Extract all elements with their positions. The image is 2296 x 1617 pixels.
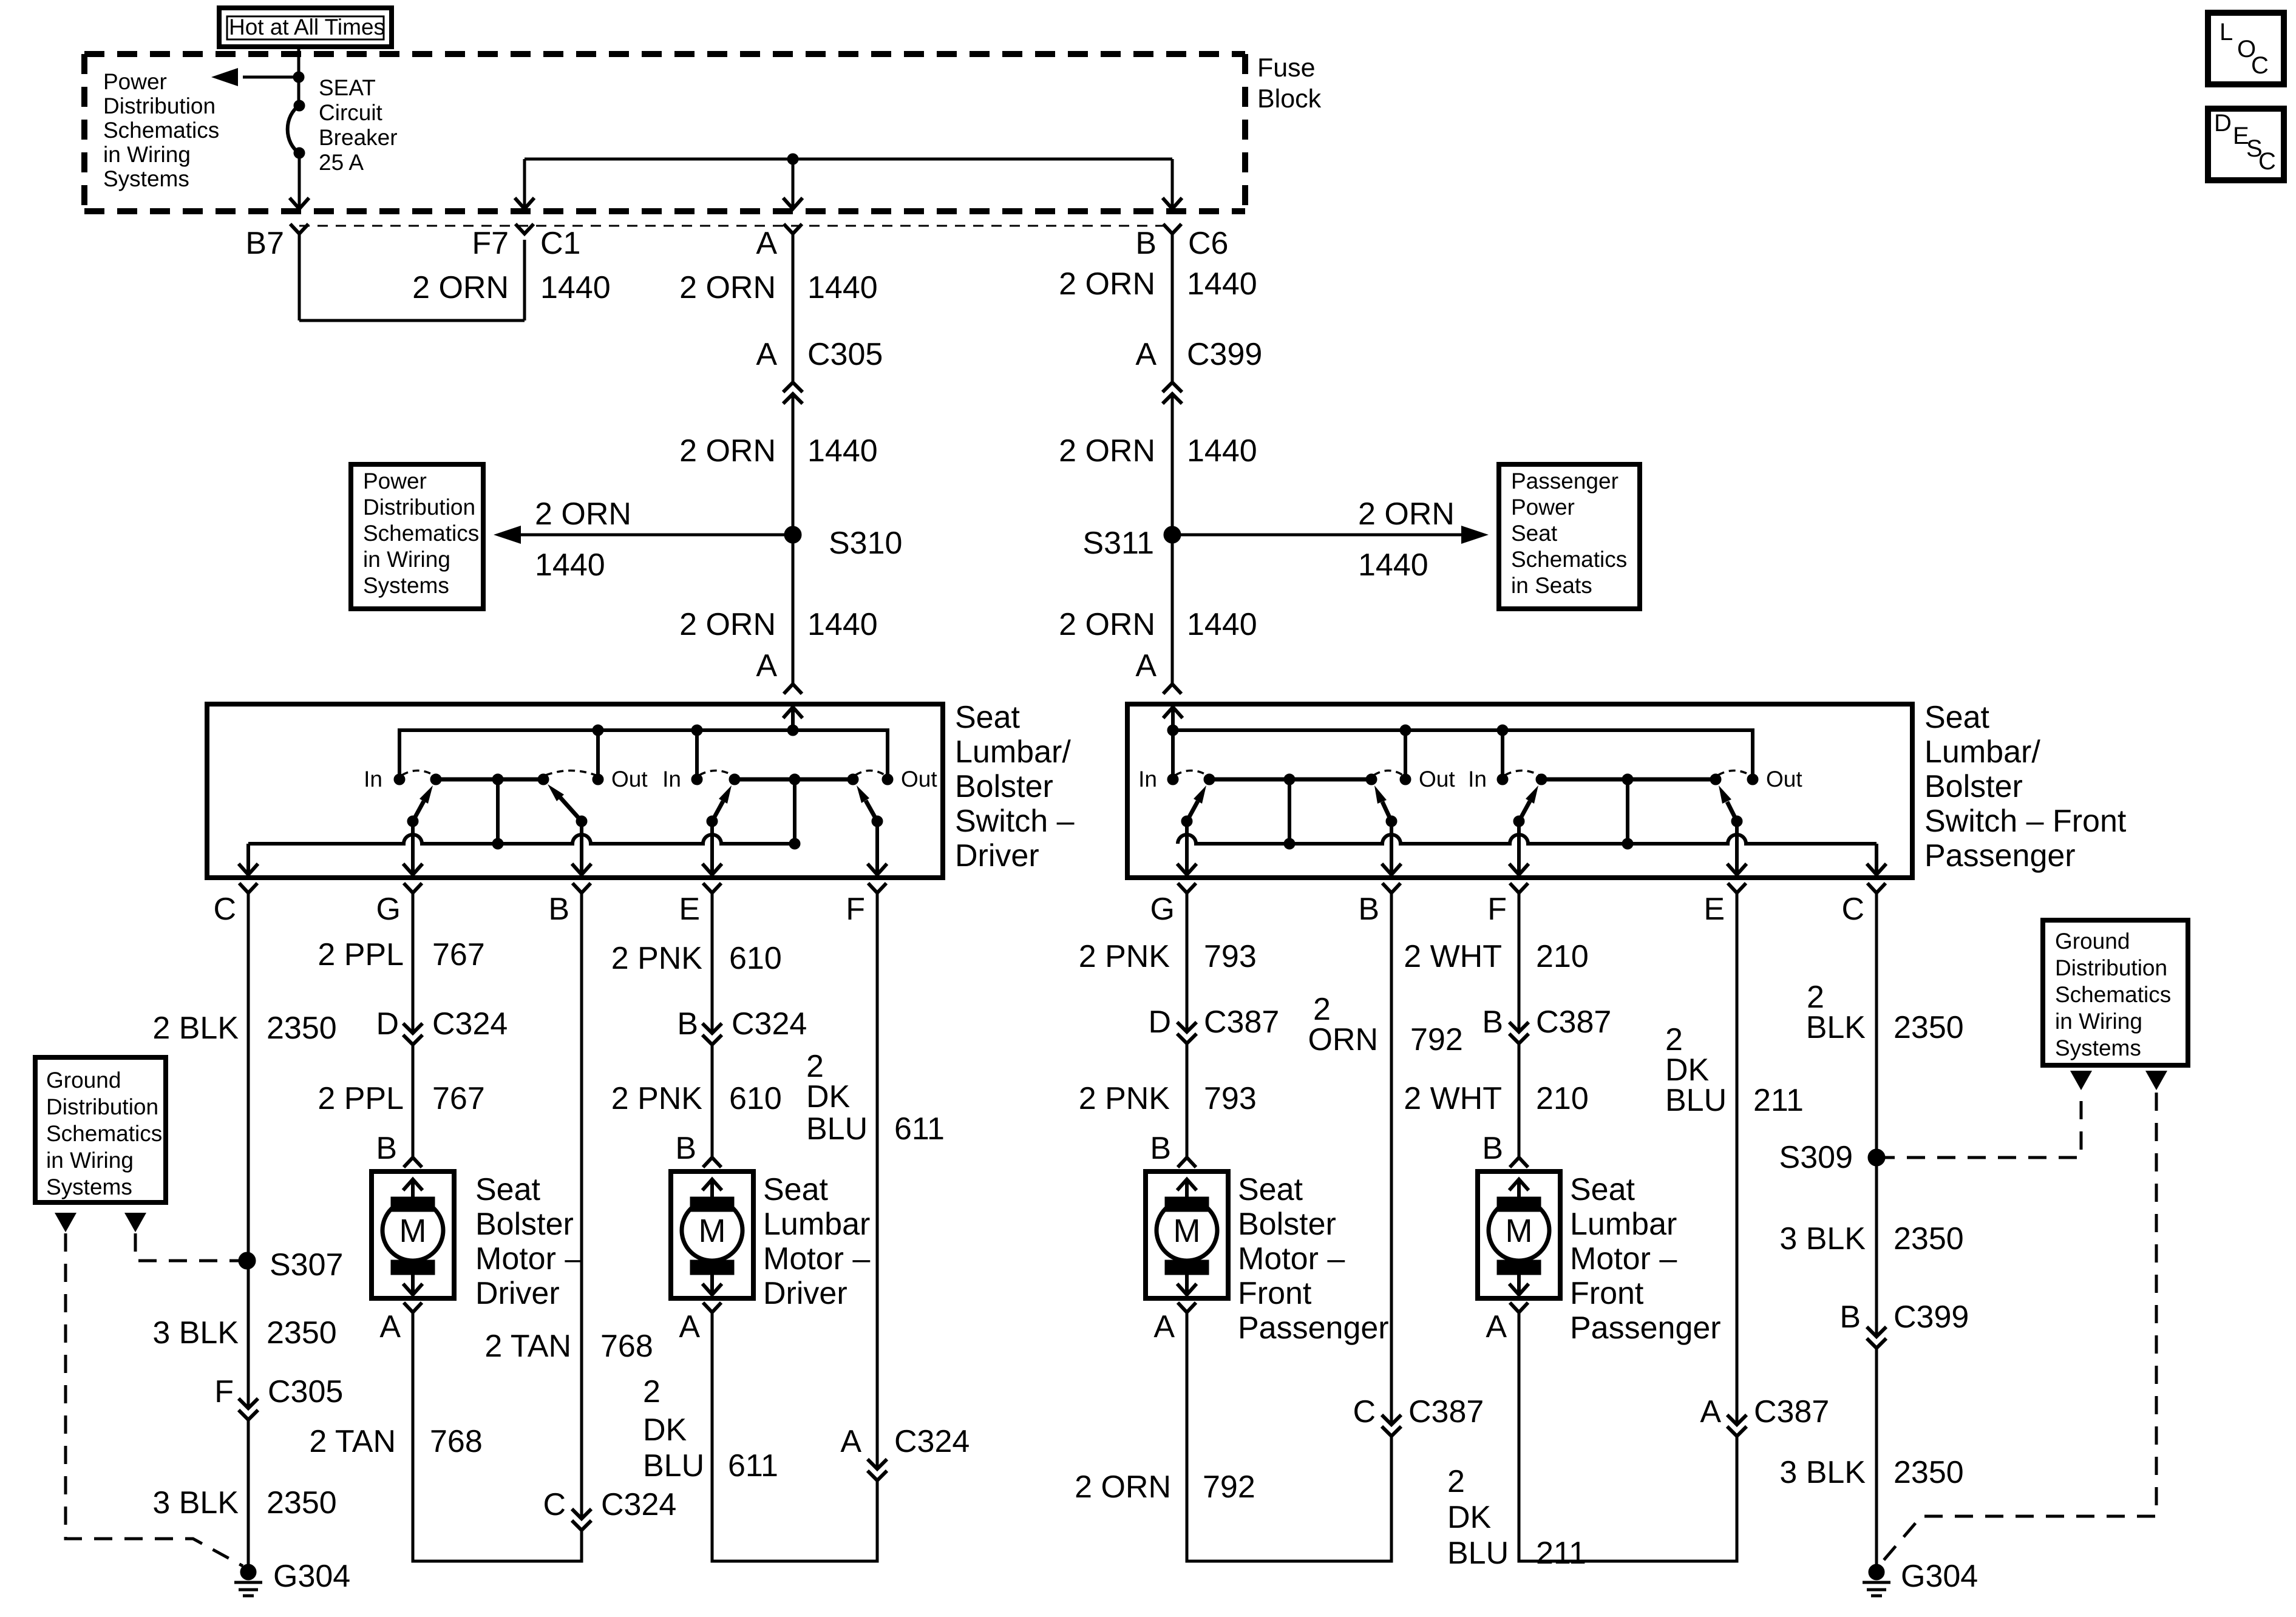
passenger switch internal bus [1173, 730, 1753, 779]
wire: bus drop to B C6 [1171, 159, 1174, 207]
svg-text:767: 767 [432, 937, 485, 972]
dashed wire: S309 to ground distribution [1877, 1093, 2081, 1158]
svg-text:E: E [1703, 892, 1725, 927]
svg-text:793: 793 [1204, 1081, 1257, 1116]
motor bottom cap [1165, 1260, 1209, 1275]
svg-text:B: B [1358, 892, 1379, 927]
motor arrow up [710, 1181, 714, 1198]
wire: C6 down to C399 [1171, 234, 1174, 382]
wire: B output leg [580, 821, 583, 873]
motor bottom cap [690, 1260, 734, 1275]
pin C chevron (driver switch) [239, 883, 257, 893]
svg-text:2: 2 [643, 1374, 661, 1409]
svg-text:211: 211 [1753, 1083, 1804, 1118]
svg-text:B: B [376, 1131, 397, 1166]
connector interface dashed line (fuse block bottom connectors) [299, 225, 1172, 227]
svg-text:1440: 1440 [807, 270, 878, 305]
svg-text:2350: 2350 [267, 1485, 337, 1520]
svg-text:S309: S309 [1779, 1140, 1853, 1175]
svg-text:3 BLK: 3 BLK [1779, 1455, 1866, 1490]
wire: C324 to bolster motor B [412, 1045, 415, 1158]
svg-text:D: D [1148, 1005, 1171, 1040]
svg-text:2 ORN: 2 ORN [412, 270, 509, 305]
arrow: ground distribution right drop [124, 1213, 146, 1232]
svg-text:1440: 1440 [1187, 433, 1257, 469]
wire: S311 down to passenger switch [1171, 535, 1174, 684]
wire: breaker to fuse block boundary B7 [298, 153, 301, 207]
wire: G output leg (passenger) [1185, 821, 1189, 873]
wire: lumbar motor A return loop (passenger) [1519, 1320, 1737, 1561]
wire: G to bolster motor [412, 893, 415, 1033]
svg-text:Motor –: Motor – [475, 1241, 582, 1276]
svg-text:Block: Block [1257, 84, 1322, 114]
svg-text:Out: Out [901, 767, 937, 792]
svg-text:2350: 2350 [1894, 1455, 1964, 1490]
svg-text:A: A [379, 1309, 401, 1344]
svg-text:2 PNK: 2 PNK [611, 941, 703, 976]
wire: bus stub to In contact (lumbar) [1501, 730, 1504, 779]
svg-text:A: A [1700, 1394, 1721, 1429]
svg-text:2 PNK: 2 PNK [1079, 939, 1170, 974]
motor box [1146, 1171, 1228, 1298]
svg-text:2 WHT: 2 WHT [1404, 1081, 1502, 1116]
wire: passenger C ground wire [1875, 893, 1878, 1337]
svg-text:2 WHT: 2 WHT [1404, 939, 1502, 974]
wire: B7 to F7 jumper loop [299, 319, 525, 322]
svg-text:2 PPL: 2 PPL [318, 1081, 404, 1116]
svg-text:2 TAN: 2 TAN [309, 1424, 396, 1459]
passenger lumbar switch contacts [1497, 774, 1508, 785]
svg-text:Seat: Seat [475, 1172, 541, 1207]
svg-text:A: A [1153, 1309, 1175, 1344]
svg-text:768: 768 [430, 1424, 483, 1459]
motor box [372, 1171, 454, 1298]
pin B chevron (driver switch) [572, 883, 591, 893]
svg-text:1440: 1440 [807, 433, 878, 469]
label box: Power Distribution Schematics in Wiring Systems (middle-left) [351, 464, 483, 609]
svg-text:Seat: Seat [1511, 521, 1558, 546]
motor top cap [690, 1197, 734, 1212]
svg-text:Driver: Driver [763, 1276, 847, 1311]
svg-text:Power: Power [363, 469, 427, 493]
splice S311 [1164, 526, 1181, 543]
svg-text:3 BLK: 3 BLK [1779, 1221, 1866, 1256]
wire: C399 to S311 [1171, 394, 1174, 535]
svg-text:Passenger: Passenger [1511, 469, 1618, 493]
wire: C output leg (passenger) [1875, 844, 1878, 873]
svg-text:C399: C399 [1894, 1300, 1969, 1335]
wire: F output leg (passenger) [1517, 821, 1521, 873]
connector C305 pin F (inline) [239, 1398, 258, 1408]
svg-text:Bolster: Bolster [1238, 1207, 1336, 1242]
svg-text:Bolster: Bolster [1924, 769, 2023, 804]
passenger bolster wiper G side [1181, 816, 1192, 827]
svg-text:A: A [1135, 648, 1156, 683]
svg-text:G304: G304 [273, 1559, 350, 1594]
svg-text:210: 210 [1536, 1081, 1589, 1116]
svg-text:Distribution: Distribution [363, 495, 475, 520]
splice S307 [239, 1252, 256, 1269]
svg-text:1440: 1440 [1358, 547, 1428, 583]
svg-text:Bolster: Bolster [475, 1207, 574, 1242]
motor arrow down [411, 1275, 415, 1293]
svg-text:3 BLK: 3 BLK [152, 1315, 239, 1351]
svg-text:BLU: BLU [1665, 1083, 1727, 1118]
motor terminal A chevron [404, 1303, 422, 1312]
svg-text:M: M [1506, 1213, 1533, 1249]
svg-text:Seat: Seat [955, 700, 1021, 735]
svg-text:Breaker: Breaker [319, 125, 398, 150]
motor box [671, 1171, 753, 1298]
svg-text:in Wiring: in Wiring [363, 547, 450, 572]
motor terminal B chevron [703, 1158, 721, 1167]
wire: E to C387 pin A (passenger) [1736, 893, 1739, 1425]
wire: E output leg [710, 821, 714, 873]
pin F7 / C1 chevron [515, 224, 534, 234]
svg-text:Switch – Front: Switch – Front [1924, 804, 2127, 839]
pin B / C6 chevron (fuse block output) [1163, 224, 1181, 234]
driver bolster wiper B side [576, 816, 587, 827]
wire: S310 down to driver switch [792, 535, 795, 684]
circuit breaker CB: SEAT Circuit Breaker 25 A [294, 100, 305, 111]
wire: bus stub to Out contact (bolster) [596, 730, 600, 779]
svg-text:DK: DK [1447, 1500, 1492, 1535]
svg-text:Fuse: Fuse [1257, 53, 1316, 83]
svg-text:2350: 2350 [1894, 1221, 1964, 1256]
svg-text:Switch –: Switch – [955, 804, 1075, 839]
svg-text:B: B [677, 1006, 698, 1042]
svg-text:2350: 2350 [1894, 1010, 1964, 1045]
svg-text:Motor –: Motor – [763, 1241, 870, 1276]
motor bottom cap [1497, 1260, 1541, 1275]
wire: lumbar common to C net (passenger) [1626, 779, 1629, 844]
svg-text:Distribution: Distribution [2055, 955, 2167, 980]
motor terminal A chevron [1510, 1303, 1528, 1312]
svg-text:2 ORN: 2 ORN [1059, 266, 1155, 302]
svg-text:In: In [1468, 767, 1487, 792]
svg-text:2350: 2350 [267, 1315, 337, 1351]
svg-text:A: A [1135, 337, 1156, 372]
wire: bus stub to In contact (lumbar) [695, 730, 699, 779]
svg-text:A: A [756, 226, 777, 261]
wire: C305 to G304 [247, 1420, 250, 1565]
motor terminal B chevron [404, 1158, 422, 1167]
svg-text:C305: C305 [268, 1374, 343, 1409]
svg-text:Seat: Seat [1570, 1172, 1635, 1207]
pin E chevron (driver switch) [703, 883, 721, 893]
motor box [1478, 1171, 1560, 1298]
wire: C387 to lumbar motor B (passenger) [1518, 1043, 1521, 1158]
svg-text:S311: S311 [1082, 526, 1154, 561]
driver lumbar switch contacts [691, 774, 702, 785]
pin G chevron (passenger switch) [1178, 883, 1196, 893]
svg-text:D: D [2214, 110, 2232, 137]
svg-text:in Seats: in Seats [1511, 573, 1592, 598]
connector C324 pin B (inline) [702, 1023, 722, 1033]
wire: F7 into fuse block [523, 159, 526, 207]
motor circle M [1156, 1200, 1217, 1261]
svg-text:Ground: Ground [46, 1068, 121, 1093]
driver lumbar wiper F side [872, 816, 883, 827]
svg-text:C387: C387 [1754, 1394, 1829, 1429]
svg-text:C: C [1353, 1394, 1376, 1429]
svg-text:1440: 1440 [807, 607, 878, 642]
arrow: ground distribution left drop (right box) [2070, 1071, 2092, 1090]
svg-text:2 PNK: 2 PNK [1079, 1081, 1170, 1116]
svg-text:B7: B7 [245, 226, 284, 261]
svg-text:SEAT: SEAT [319, 75, 376, 100]
wire: bolster motor A return loop (passenger) [1187, 1320, 1391, 1561]
svg-text:B: B [1135, 226, 1156, 261]
svg-text:C387: C387 [1408, 1394, 1484, 1429]
arrow: ground distribution left drop [55, 1213, 76, 1232]
motor arrow down [1185, 1275, 1189, 1293]
passenger bolster wiper B side [1386, 816, 1397, 827]
connector C399 pin A (inline) [1163, 382, 1182, 392]
svg-text:Front: Front [1570, 1276, 1644, 1311]
node: bus junction above C1-A column [787, 154, 798, 164]
svg-text:DK: DK [806, 1079, 851, 1114]
svg-text:Schematics: Schematics [46, 1121, 162, 1146]
switch box: Seat Lumbar/Bolster Switch - Front Passenger [1127, 704, 1912, 878]
connector C324 pin C (inline) [572, 1509, 591, 1519]
svg-text:Ground: Ground [2055, 929, 2130, 954]
driver switch internal bus [399, 730, 888, 779]
marker box: LOC [2208, 13, 2284, 84]
wire: G to bolster motor (passenger) [1186, 893, 1189, 1032]
svg-text:Schematics: Schematics [363, 521, 479, 546]
motor arrow up [1185, 1181, 1189, 1198]
pin F chevron (passenger switch) [1510, 883, 1528, 893]
svg-text:Bolster: Bolster [955, 769, 1053, 804]
svg-text:2 PPL: 2 PPL [318, 937, 404, 972]
svg-text:A: A [756, 648, 777, 683]
svg-text:Systems: Systems [2055, 1036, 2141, 1060]
svg-text:B: B [1150, 1131, 1171, 1166]
passenger lumbar wiper E side [1731, 816, 1742, 827]
svg-text:G: G [1150, 892, 1175, 927]
svg-text:768: 768 [600, 1329, 653, 1364]
svg-text:25 A: 25 A [319, 150, 364, 175]
switch box: Seat Lumbar/Bolster Switch - Driver [207, 704, 943, 878]
svg-text:Schematics: Schematics [1511, 547, 1627, 572]
passenger bolster switch contacts [1167, 774, 1178, 785]
driver bolster switch contacts [394, 774, 405, 785]
svg-text:C6: C6 [1188, 226, 1228, 261]
splice S310 [784, 526, 801, 543]
svg-text:Passenger: Passenger [1570, 1310, 1721, 1346]
wire: F output leg [875, 821, 879, 873]
svg-text:C324: C324 [894, 1424, 970, 1459]
svg-text:C305: C305 [807, 337, 883, 372]
passenger lumbar wiper F side [1513, 816, 1524, 827]
svg-text:211: 211 [1536, 1536, 1586, 1571]
svg-text:2 TAN: 2 TAN [484, 1329, 571, 1364]
svg-text:Driver: Driver [955, 838, 1039, 873]
arrow to power distribution schematics [243, 76, 299, 79]
svg-text:Front: Front [1238, 1276, 1312, 1311]
svg-text:Schematics: Schematics [2055, 982, 2171, 1007]
wire: bus stub to Out contact (bolster) [1404, 730, 1407, 779]
motor top cap [1497, 1197, 1541, 1212]
motor terminal A chevron [1178, 1303, 1196, 1312]
svg-text:Distribution: Distribution [103, 93, 216, 118]
svg-text:Motor –: Motor – [1238, 1241, 1345, 1276]
wire: B to C324 pin C [580, 893, 583, 1519]
svg-text:2: 2 [1447, 1464, 1465, 1499]
dashed wire: ground distribution to G304 (right) [1881, 1093, 2156, 1564]
svg-text:2 PNK: 2 PNK [611, 1081, 703, 1116]
svg-text:210: 210 [1536, 939, 1589, 974]
label box: Passenger Power Seat Schematics in Seats [1499, 464, 1640, 609]
motor bottom cap [391, 1260, 435, 1275]
svg-text:D: D [376, 1006, 399, 1042]
svg-text:C1: C1 [540, 226, 580, 261]
svg-text:BLU: BLU [1447, 1536, 1509, 1571]
svg-text:Systems: Systems [363, 573, 449, 598]
wire: B to C387 pin C (passenger) [1390, 893, 1393, 1425]
svg-text:A: A [756, 337, 777, 372]
svg-text:F7: F7 [472, 226, 509, 261]
wire: C305 to S310 [792, 394, 795, 535]
svg-text:C: C [2251, 52, 2269, 79]
pin B7 chevron [290, 224, 308, 234]
svg-text:in Wiring: in Wiring [46, 1148, 134, 1173]
wire: F to C324 pin A [876, 893, 879, 1469]
wire: F to lumbar motor (passenger) [1518, 893, 1521, 1032]
dashed wire: ground distribution to S307 [135, 1233, 239, 1261]
svg-text:C324: C324 [601, 1487, 676, 1522]
arrow: feed A into driver switch [791, 708, 795, 730]
svg-text:610: 610 [729, 1081, 782, 1116]
svg-text:in Wiring: in Wiring [2055, 1009, 2142, 1034]
svg-text:Lumbar: Lumbar [763, 1207, 870, 1242]
fuse block dashed box (with power distribution region) [84, 51, 1245, 57]
dashed wire: ground distribution to G304 (left) [66, 1233, 243, 1566]
marker box: DESC [2208, 109, 2284, 180]
svg-text:C387: C387 [1536, 1005, 1611, 1040]
wire: C output leg [246, 844, 250, 873]
motor top cap [391, 1197, 435, 1212]
svg-text:Power: Power [103, 69, 167, 94]
arrow: ground distribution right drop (right box) [2145, 1071, 2167, 1090]
svg-text:Passenger: Passenger [1924, 838, 2076, 873]
svg-text:B: B [1482, 1131, 1503, 1166]
motor terminal B chevron [1510, 1158, 1528, 1167]
svg-text:2 ORN: 2 ORN [679, 607, 776, 642]
svg-text:F: F [846, 892, 865, 927]
svg-text:L: L [2220, 19, 2233, 46]
svg-text:DK: DK [643, 1412, 687, 1448]
label box: Hot at All Times [219, 8, 392, 47]
wire: E output leg (passenger) [1735, 821, 1739, 873]
svg-text:B: B [1839, 1300, 1861, 1335]
svg-text:C: C [2258, 148, 2276, 175]
svg-text:767: 767 [432, 1081, 485, 1116]
svg-text:F: F [214, 1374, 234, 1409]
ground G304 (passenger) [1869, 1564, 1884, 1580]
svg-text:Seat: Seat [1924, 700, 1990, 735]
svg-text:1440: 1440 [1187, 266, 1257, 302]
label box: Ground Distribution Schematics in Wiring Systems (right) [2043, 920, 2188, 1065]
svg-text:Systems: Systems [46, 1175, 132, 1199]
svg-text:C324: C324 [732, 1006, 807, 1042]
svg-text:A: A [840, 1424, 861, 1459]
connector C324 pin D (inline) [403, 1023, 423, 1033]
svg-text:2 ORN: 2 ORN [1059, 607, 1155, 642]
wire: hot feed from Hot at All Times box [297, 47, 301, 106]
driver lumbar wiper E side [707, 816, 718, 827]
svg-text:Seat: Seat [1238, 1172, 1303, 1207]
svg-text:E: E [679, 892, 700, 927]
svg-text:2 BLK: 2 BLK [152, 1011, 239, 1046]
svg-text:C: C [1841, 892, 1864, 927]
svg-text:M: M [699, 1213, 726, 1249]
passenger switch C net lower wire [1178, 835, 1877, 844]
driver switch C net lower wire [248, 835, 795, 844]
svg-text:3 BLK: 3 BLK [152, 1485, 239, 1520]
connector C387 pin A (inline) [1727, 1415, 1747, 1425]
pin G chevron (driver switch) [404, 883, 422, 893]
svg-text:B: B [548, 892, 569, 927]
svg-text:1440: 1440 [540, 270, 611, 305]
connector C399 pin B (inline) [1867, 1327, 1886, 1337]
svg-text:Lumbar/: Lumbar/ [955, 734, 1071, 770]
svg-text:A: A [679, 1309, 700, 1344]
pin E chevron (passenger switch) [1728, 883, 1746, 893]
motor top cap [1165, 1197, 1209, 1212]
svg-text:in Wiring: in Wiring [103, 142, 191, 167]
svg-text:A: A [1486, 1309, 1507, 1344]
svg-text:2 ORN: 2 ORN [1358, 497, 1455, 532]
svg-text:Passenger: Passenger [1238, 1310, 1389, 1346]
svg-text:Out: Out [1766, 767, 1802, 792]
svg-text:Schematics: Schematics [103, 118, 219, 143]
svg-text:Hot at All Times: Hot at All Times [229, 15, 385, 39]
svg-text:S307: S307 [270, 1247, 343, 1283]
svg-text:F: F [1487, 892, 1507, 927]
wire: bolster common to C net [496, 779, 500, 844]
svg-text:Distribution: Distribution [46, 1094, 158, 1119]
svg-text:611: 611 [728, 1448, 778, 1483]
wire: fuse block internal bus F7 to C6 [525, 158, 1172, 161]
wire: lumbar motor A return loop [712, 1320, 877, 1561]
driver bolster wiper G side [407, 816, 418, 827]
svg-text:C387: C387 [1204, 1005, 1279, 1040]
motor arrow down [1517, 1275, 1521, 1293]
svg-text:2350: 2350 [267, 1011, 337, 1046]
wire: driver C ground wire [247, 893, 250, 1408]
motor arrow down [710, 1275, 714, 1293]
wire: A down to C305 [792, 234, 795, 382]
svg-text:793: 793 [1204, 939, 1257, 974]
svg-text:611: 611 [894, 1111, 945, 1147]
motor terminal A chevron [703, 1303, 721, 1312]
connector C387 pin D (inline) [1177, 1022, 1197, 1032]
svg-text:Driver: Driver [475, 1276, 560, 1311]
wire: C399 to G304 [1875, 1348, 1878, 1565]
motor terminal B chevron [1178, 1158, 1196, 1167]
motor arrow up [1517, 1181, 1521, 1198]
svg-text:S310: S310 [829, 526, 902, 561]
svg-text:M: M [399, 1213, 427, 1249]
svg-text:2 ORN: 2 ORN [535, 497, 631, 532]
svg-text:B: B [675, 1131, 696, 1166]
connector C387 pin B (inline) [1509, 1022, 1529, 1032]
connector C387 pin C (inline) [1382, 1415, 1401, 1425]
svg-text:M: M [1173, 1213, 1201, 1249]
pin A chevron (fuse block output) [784, 224, 802, 234]
